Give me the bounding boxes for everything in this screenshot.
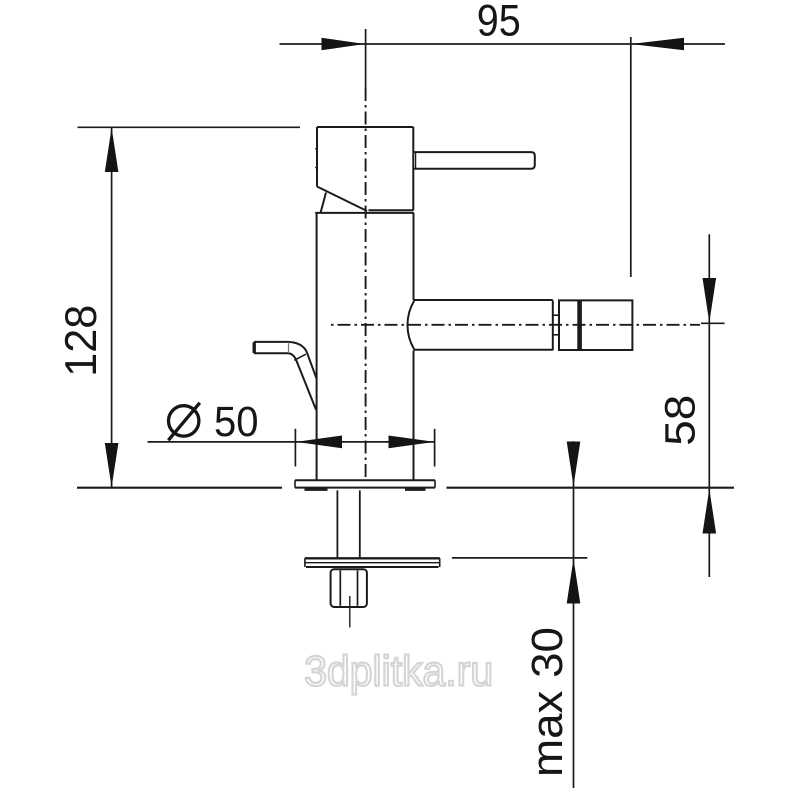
- arrow 128 top: [105, 128, 119, 172]
- head handle bottom diagonal: [317, 187, 367, 212]
- mounting washer left cap: [304, 558, 306, 567]
- base flange bottom: [295, 487, 435, 489]
- dim dia50 left extension: [294, 429, 296, 467]
- countertop line right: [447, 487, 735, 489]
- dim 95 right extension line: [630, 37, 632, 277]
- body right edge lower: [413, 351, 415, 480]
- body right edge upper: [413, 213, 415, 300]
- bidet arm end cap rectangle: [559, 300, 632, 350]
- svg-text:58: 58: [656, 395, 704, 446]
- centerline vertical solid top (95 extension): [365, 29, 367, 88]
- dim dia50 right extension: [434, 429, 436, 467]
- base flange right end: [434, 480, 436, 487]
- bidet arm top edge: [414, 299, 553, 301]
- faucet head block outline: [317, 127, 413, 210]
- spray hook outer edge: [254, 342, 317, 379]
- spray hook bend tick: [288, 342, 290, 353]
- mounting nut left facet line: [339, 570, 341, 605]
- dim 58 line: [708, 234, 710, 577]
- mounting washer right cap: [439, 558, 441, 567]
- bidet arm bottom edge: [414, 349, 553, 351]
- bidet arm butt arc at body: [408, 301, 415, 350]
- threaded shank left: [336, 490, 338, 557]
- threaded shank right: [359, 490, 361, 557]
- head cone left diagonal: [321, 193, 327, 214]
- head left edge nub upper: [315, 148, 317, 150]
- dim max30 bottom extension: [452, 557, 587, 559]
- centerline vertical dash-dot through body: [365, 88, 367, 479]
- dim dia50 line: [148, 441, 435, 443]
- svg-text:3dplitka.ru: 3dplitka.ru: [304, 648, 493, 695]
- spray hook left end cap: [252, 342, 255, 353]
- svg-text:95: 95: [477, 0, 521, 45]
- arrow 128 bottom: [105, 443, 119, 487]
- gasket left: [305, 488, 328, 491]
- head bottom right edge: [369, 209, 414, 211]
- bidet arm main tube end vertical: [552, 300, 554, 350]
- mounting nut outline: [331, 569, 367, 607]
- svg-text:max 30: max 30: [523, 627, 572, 777]
- mounting washer bottom: [306, 566, 439, 568]
- diameter symbol of dia 50: [168, 403, 200, 441]
- arrow max30 top: [567, 442, 581, 487]
- mounting washer mid line: [305, 562, 440, 564]
- svg-text:128: 128: [57, 305, 106, 377]
- spray hook inner edge: [254, 353, 316, 409]
- body left edge: [316, 213, 318, 480]
- arrow dia50 right: [389, 436, 435, 449]
- spray hook joint line: [294, 354, 306, 360]
- dim 58 top tick: [701, 322, 725, 324]
- handle lever bar: [414, 152, 535, 169]
- bidet arm aerator joint thick line: [577, 300, 582, 350]
- arrow dia50 left: [296, 436, 342, 449]
- base flange left end: [294, 480, 296, 487]
- collar line under head: [315, 212, 414, 214]
- arrow max30 bottom: [567, 559, 581, 604]
- arrow 58 bottom: [703, 489, 717, 534]
- countertop line left: [77, 487, 282, 489]
- head left edge nub lower: [315, 167, 317, 169]
- bolt centerline stub: [349, 596, 351, 627]
- arrow 95 left: [322, 38, 365, 51]
- arrow 58 top: [703, 278, 717, 323]
- bidet arm ring bottom: [553, 334, 559, 336]
- mounting nut right facet line: [357, 570, 359, 605]
- dim 128 line: [111, 128, 113, 487]
- svg-text:50: 50: [214, 398, 259, 445]
- arrow 95 right: [631, 38, 684, 51]
- dim max30 line: [573, 441, 575, 788]
- dim 95 line: [280, 43, 725, 45]
- bidet arm ring top: [553, 314, 559, 316]
- base flange top: [295, 479, 435, 481]
- handle bar end vertical at head: [415, 152, 417, 169]
- arm centerline dash-dot horizontal: [331, 324, 700, 326]
- dim 128 top extension line: [78, 126, 301, 128]
- gasket right: [405, 488, 426, 491]
- mounting washer top: [305, 557, 440, 559]
